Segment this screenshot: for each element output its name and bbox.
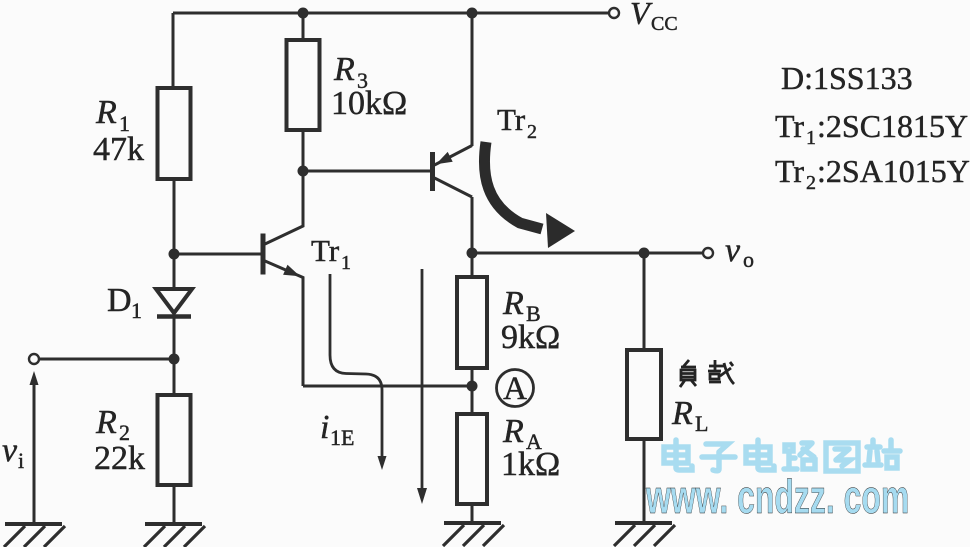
svg-text:2: 2: [527, 121, 537, 143]
svg-text:D:1SS133: D:1SS133: [781, 60, 913, 96]
svg-text:R: R: [502, 285, 524, 322]
label R1: [95, 94, 130, 136]
resistor RA: [457, 414, 487, 504]
svg-text:D: D: [107, 282, 132, 319]
label parts list Tr2: [775, 153, 970, 194]
wire R1 bottom to D1: [173, 179, 176, 289]
wire top rail VCC: [173, 12, 609, 15]
svg-text:i: i: [320, 409, 329, 446]
svg-text:Tr: Tr: [775, 108, 804, 144]
resistor RB: [457, 277, 487, 368]
svg-text::2SC1815Y: :2SC1815Y: [817, 108, 968, 144]
label RB: [502, 285, 541, 326]
svg-text:1: 1: [341, 252, 351, 274]
label R3: [333, 51, 368, 93]
watermark chinese glyphs: [664, 440, 900, 471]
wire R1 top: [172, 13, 175, 88]
wire output rail: [472, 252, 703, 255]
label Tr2: [497, 102, 537, 143]
svg-text:v: v: [725, 232, 741, 269]
label parts list Tr1: [775, 108, 968, 149]
diode D1: [156, 289, 192, 313]
transistor Q2 emitter arrowhead: [436, 152, 453, 164]
label RL: [671, 395, 708, 436]
svg-text:R: R: [502, 413, 524, 450]
svg-text:L: L: [695, 411, 708, 436]
junction dot top Tr2: [467, 8, 478, 19]
svg-text:v: v: [2, 432, 18, 469]
wire R3 bottom to node B2: [302, 130, 305, 171]
ground under RL: [614, 523, 675, 546]
wire node to R2: [173, 359, 176, 395]
transistor Q1 base bar: [261, 234, 266, 275]
svg-text:1: 1: [806, 127, 816, 149]
ground under vi: [4, 524, 65, 547]
svg-text:Tr: Tr: [497, 102, 526, 137]
wire Tr1 emitter to node A: [303, 385, 472, 388]
svg-text:Tr: Tr: [775, 153, 804, 189]
resistor RL load: [627, 350, 661, 439]
svg-text:1: 1: [131, 298, 142, 323]
wire Tr2 collector to output: [471, 197, 474, 253]
svg-text:47k: 47k: [93, 131, 144, 168]
junction dot RL tap: [639, 248, 650, 259]
wire Tr2 collector diagonal: [435, 178, 473, 197]
wire Tr1 base: [174, 253, 261, 256]
wire R3 top: [302, 13, 305, 40]
resistor R3: [287, 40, 320, 130]
resistor R2: [158, 395, 191, 485]
svg-text:1E: 1E: [330, 425, 354, 450]
label VCC: [630, 0, 678, 35]
watermark url: [645, 471, 909, 524]
label i1E: [320, 409, 354, 450]
wire Tr2 emitter to rail: [471, 13, 474, 146]
svg-text:i: i: [18, 448, 24, 473]
label R2: [95, 404, 130, 445]
label Tr1: [311, 233, 351, 274]
wire input terminal to node: [39, 358, 174, 361]
junction dot node A: [467, 381, 478, 392]
junction dot Tr1 base: [169, 249, 180, 260]
wire vi source line: [33, 380, 36, 524]
svg-text:9kΩ: 9kΩ: [501, 319, 560, 356]
svg-text:1kΩ: 1kΩ: [501, 446, 560, 483]
label RA: [502, 413, 542, 454]
svg-text:Tr: Tr: [311, 233, 340, 268]
wire RA to ground: [471, 504, 474, 523]
svg-text:10kΩ: 10kΩ: [331, 85, 407, 122]
junction dot output node: [467, 248, 478, 259]
wire R2 to ground: [173, 485, 176, 524]
wire output to RB: [471, 253, 474, 277]
wire Tr1 emitter: [265, 261, 303, 386]
terminal VCC: [609, 8, 619, 18]
junction dot top R3: [298, 8, 309, 19]
ground under R2: [144, 524, 205, 547]
svg-text:R: R: [671, 395, 693, 432]
svg-text:www. cndzz. com: www. cndzz. com: [645, 471, 909, 524]
label vi: [2, 432, 24, 473]
label D1: [107, 282, 142, 323]
terminal vo: [703, 248, 713, 258]
ground under RA: [443, 523, 504, 546]
svg-text:CC: CC: [651, 13, 678, 35]
svg-text:o: o: [743, 247, 754, 272]
junction dot R3 Tr2 base node: [298, 166, 309, 177]
wire RL to ground: [643, 439, 646, 523]
svg-text::2SA1015Y: :2SA1015Y: [817, 153, 970, 189]
transistor Q2 base bar: [430, 152, 435, 191]
node A circle: [497, 370, 534, 408]
junction dot input node: [169, 354, 180, 365]
label vo: [725, 232, 754, 272]
wire D1 to input node: [173, 317, 176, 359]
wire node B2 to Tr2 base: [303, 170, 430, 173]
svg-text:A: A: [503, 371, 527, 407]
vi arrow up: [30, 371, 39, 385]
thick signal arrow: [484, 142, 542, 229]
transistor Q1 emitter arrowhead: [283, 265, 300, 276]
terminal vi: [29, 354, 39, 364]
svg-text:22k: 22k: [94, 440, 145, 477]
svg-text:R: R: [95, 404, 117, 441]
svg-text:V: V: [630, 0, 653, 31]
svg-text:2: 2: [806, 172, 816, 194]
wire Tr2 emitter diagonal: [435, 146, 473, 166]
svg-text:R: R: [95, 94, 117, 131]
resistor R1: [158, 88, 191, 179]
wire RB to node A: [471, 368, 474, 414]
wire Tr1 collector: [265, 171, 303, 244]
label load fuzai glyphs: [680, 360, 734, 387]
svg-text:R: R: [333, 51, 355, 88]
current arrow i1E curve: [330, 274, 382, 457]
wire output to RL: [643, 253, 646, 350]
current arrow long: [421, 269, 424, 489]
